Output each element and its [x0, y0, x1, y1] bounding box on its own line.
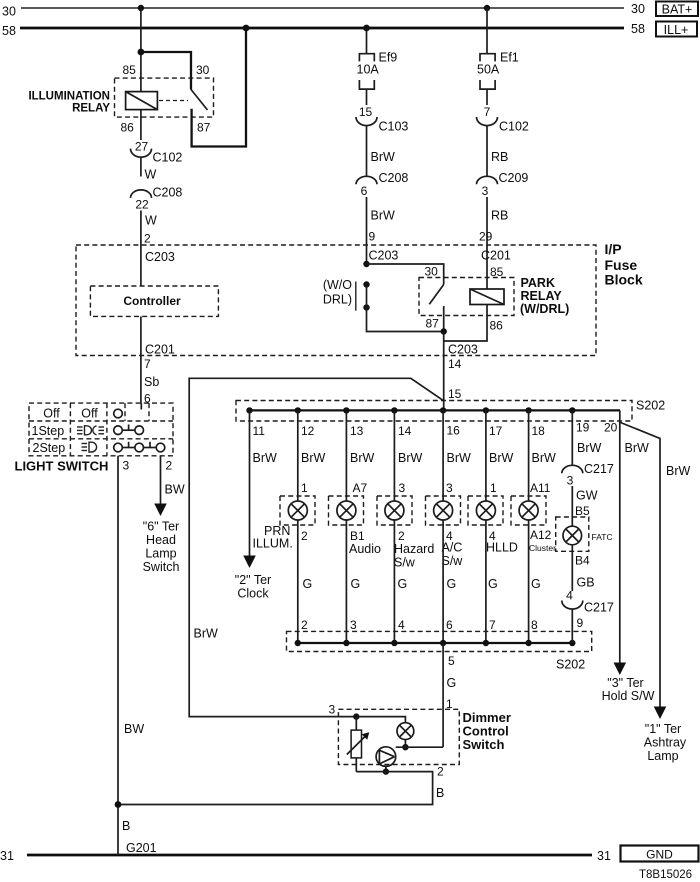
- I/P fuse block dashed box: [76, 245, 596, 356]
- svg-text:DRL): DRL): [323, 293, 352, 307]
- svg-text:BrW: BrW: [194, 627, 219, 641]
- lamp column 17: HLLD: [468, 410, 518, 643]
- svg-text:Lamp: Lamp: [145, 547, 176, 561]
- svg-text:BrW: BrW: [447, 451, 472, 465]
- transistor dimmer driver: [376, 747, 396, 772]
- lamp FATC: [556, 517, 613, 551]
- light switch pin labels 3 and 2: [123, 459, 173, 473]
- svg-text:85: 85: [490, 265, 504, 279]
- connector C103 pin 15: [356, 105, 408, 134]
- bus line 31 (ground): [0, 849, 611, 863]
- relay coil: [126, 92, 158, 110]
- svg-text:B: B: [122, 819, 130, 833]
- svg-text:87: 87: [426, 317, 440, 331]
- svg-text:Audio: Audio: [349, 542, 381, 556]
- wire BrW to fuse block pin 9 C203: [367, 197, 399, 264]
- wire RB to C209: [487, 126, 508, 177]
- svg-text:BW: BW: [124, 722, 144, 736]
- svg-text:A/C: A/C: [442, 541, 463, 555]
- svg-text:C102: C102: [153, 151, 183, 165]
- svg-text:22: 22: [135, 198, 149, 212]
- connector C209 pin 3: [477, 171, 529, 198]
- svg-text:G: G: [488, 577, 498, 591]
- svg-text:Hazard: Hazard: [394, 542, 434, 556]
- svg-text:4: 4: [398, 618, 405, 632]
- lamp column 12: PRN ILLUM.: [253, 410, 326, 643]
- light switch contacts row 2Step: [114, 442, 165, 452]
- wire pin3 node to lamp: [356, 717, 405, 723]
- svg-text:27: 27: [135, 140, 149, 154]
- wire node to park relay contact 30: [367, 264, 444, 285]
- wire fuse to connector C103: [366, 89, 368, 105]
- svg-text:Clock: Clock: [237, 587, 269, 601]
- svg-text:BrW: BrW: [666, 464, 691, 478]
- wire coil 86 to node: [444, 305, 487, 342]
- light switch contacts row Off: [114, 409, 123, 418]
- S202 upper bus nodes: [246, 407, 575, 413]
- bus line 30 (BAT+): [2, 2, 645, 19]
- wire W/O DRL lower leg: [367, 308, 444, 332]
- terminal box BAT+: [656, 2, 698, 17]
- label (W/O DRL) with bracket: [323, 278, 356, 311]
- wire dimmer pin 2 B to ground junction: [118, 765, 444, 805]
- svg-text:ILLUM.: ILLUM.: [253, 537, 293, 551]
- svg-text:Ef9: Ef9: [379, 51, 398, 65]
- svg-text:BrW: BrW: [350, 451, 375, 465]
- label Dimmer Control Switch: [463, 710, 511, 752]
- svg-text:58: 58: [631, 22, 645, 36]
- svg-text:16: 16: [447, 424, 461, 438]
- svg-text:3: 3: [329, 703, 336, 717]
- svg-text:RB: RB: [491, 209, 508, 223]
- svg-text:"2" Ter: "2" Ter: [235, 573, 271, 587]
- svg-text:S202: S202: [556, 658, 585, 672]
- svg-text:C203: C203: [448, 343, 478, 357]
- W/O DRL jumper contacts: [363, 281, 369, 310]
- terminal box ILL+: [656, 22, 697, 38]
- terminal box GND: [621, 846, 699, 862]
- svg-text:29: 29: [479, 230, 493, 244]
- svg-text:BrW: BrW: [371, 150, 396, 164]
- wire bus 30 to fuse Ef1: [486, 8, 488, 54]
- svg-text:(W/O: (W/O: [323, 278, 352, 292]
- svg-text:BrW: BrW: [577, 441, 602, 455]
- svg-text:87: 87: [197, 121, 211, 135]
- arrow to "2" Ter clock: [235, 556, 271, 601]
- connector C102 pin 7: [477, 105, 529, 134]
- icon head lamp (2Step): [82, 442, 97, 452]
- wire S202 pin 5 G down to dimmer pin 1: [443, 643, 456, 747]
- svg-text:Ashtray: Ashtray: [644, 736, 687, 750]
- label I/P Fuse Block: [605, 241, 643, 288]
- svg-text:2: 2: [166, 459, 173, 473]
- svg-text:PARK: PARK: [521, 276, 556, 290]
- svg-text:BrW: BrW: [532, 451, 557, 465]
- svg-text:ILLUMINATION: ILLUMINATION: [28, 91, 110, 103]
- svg-text:C102: C102: [499, 120, 529, 134]
- svg-text:C203: C203: [145, 250, 175, 264]
- svg-text:GW: GW: [576, 489, 598, 503]
- illumination relay dashed box: [115, 78, 214, 117]
- svg-text:BrW: BrW: [253, 451, 278, 465]
- svg-text:10A: 10A: [357, 63, 380, 77]
- svg-text:30: 30: [425, 265, 439, 279]
- light switch contacts row 1Step: [114, 425, 144, 435]
- svg-text:3: 3: [482, 184, 489, 198]
- svg-text:C208: C208: [379, 171, 409, 185]
- arrow to "3" Ter hold S/W: [602, 663, 655, 704]
- svg-text:G201: G201: [126, 841, 157, 855]
- svg-text:(W/DRL): (W/DRL): [520, 302, 569, 316]
- svg-text:2Step: 2Step: [33, 441, 66, 455]
- connector C208 pin 22: [131, 186, 183, 212]
- svg-text:A7: A7: [353, 481, 368, 495]
- svg-text:C203: C203: [369, 249, 399, 263]
- svg-text:A12: A12: [530, 528, 552, 542]
- relay mechanical link (dashed): [159, 100, 188, 102]
- label PARK RELAY (W/DRL): [520, 276, 569, 316]
- wire BrW branch to ashtray lamp: [621, 423, 691, 707]
- svg-text:8: 8: [531, 618, 538, 632]
- svg-text:2: 2: [398, 529, 405, 543]
- svg-text:S/w: S/w: [442, 554, 464, 568]
- svg-text:C217: C217: [584, 462, 614, 476]
- svg-text:3: 3: [399, 481, 406, 495]
- arrow to "1" Ter ashtray lamp: [644, 707, 687, 764]
- svg-text:85: 85: [123, 63, 137, 77]
- svg-text:W: W: [145, 168, 157, 182]
- park relay coil 85/86: [470, 265, 504, 333]
- park relay contact blade: [429, 285, 443, 305]
- lamp column 18: A12 Cluster: [511, 410, 556, 643]
- svg-text:BrW: BrW: [301, 451, 326, 465]
- svg-text:G: G: [447, 577, 457, 591]
- wire W to C208: [141, 157, 157, 182]
- svg-text:Cluster: Cluster: [529, 543, 556, 553]
- svg-text:G: G: [531, 577, 541, 591]
- node on bus 30 feeding fuse Ef1: [484, 5, 490, 11]
- relay contact blade: [191, 90, 208, 111]
- svg-text:A11: A11: [530, 481, 551, 495]
- svg-text:Switch: Switch: [463, 737, 505, 752]
- svg-text:14: 14: [398, 424, 412, 438]
- svg-text:FATC: FATC: [592, 532, 613, 542]
- svg-text:C208: C208: [153, 186, 183, 200]
- svg-text:B1: B1: [350, 529, 365, 543]
- svg-text:C201: C201: [481, 249, 511, 263]
- svg-text:5: 5: [448, 654, 455, 668]
- S202 pin numbers top row: [253, 421, 618, 439]
- svg-text:B: B: [436, 786, 444, 800]
- svg-text:BW: BW: [165, 483, 185, 497]
- node on bus 58: [243, 25, 250, 32]
- svg-text:W: W: [145, 214, 157, 228]
- controller dashed box: [90, 286, 218, 316]
- wire bus30 down to relay coil pin 85: [140, 8, 142, 92]
- svg-text:18: 18: [532, 424, 546, 438]
- bus line 58 (ILL+): [2, 22, 645, 38]
- park relay dashed box: [419, 278, 514, 316]
- node transistor emitter: [383, 768, 389, 774]
- wire bus 58 to fuse Ef9: [366, 28, 368, 54]
- svg-text:C209: C209: [499, 171, 529, 185]
- wire to C203 pin 14 down to S202 pin 15: [444, 332, 478, 411]
- svg-text:C217: C217: [584, 601, 614, 615]
- connector C217 pin 4: [562, 589, 614, 615]
- svg-text:30: 30: [196, 63, 210, 77]
- svg-text:BAT+: BAT+: [662, 3, 693, 17]
- svg-text:RELAY: RELAY: [72, 103, 110, 115]
- svg-text:G: G: [398, 577, 408, 591]
- svg-text:ILL+: ILL+: [664, 23, 689, 37]
- svg-text:G: G: [447, 676, 457, 690]
- lamp column 16: A/C S/w: [426, 410, 472, 643]
- svg-text:6: 6: [361, 184, 368, 198]
- svg-text:Block: Block: [605, 272, 643, 288]
- svg-text:Hold S/W: Hold S/W: [602, 689, 655, 703]
- svg-text:I/P: I/P: [605, 241, 622, 257]
- svg-text:Ef1: Ef1: [500, 51, 519, 65]
- connector C102 pin 27: [131, 140, 183, 165]
- svg-text:3: 3: [123, 459, 130, 473]
- wire pin 11 BrW to clock: [250, 410, 278, 555]
- light switch dashed box: [29, 403, 173, 456]
- wire fuse to connector C102: [486, 89, 488, 105]
- svg-text:BrW: BrW: [398, 451, 423, 465]
- node branch to relay contact 30: [138, 49, 145, 56]
- connector C208 pin 6: [356, 171, 408, 198]
- wire node to pin 1: [396, 746, 443, 748]
- svg-text:"3" Ter: "3" Ter: [607, 676, 643, 690]
- svg-text:Switch: Switch: [143, 560, 180, 574]
- S202 upper bus wire: [250, 409, 621, 411]
- wire BrW to C208: [367, 126, 396, 177]
- svg-text:RB: RB: [491, 150, 508, 164]
- lamp column 14: Hazard S/w: [377, 410, 434, 643]
- svg-text:1Step: 1Step: [32, 424, 65, 438]
- S202 lower bus wire: [298, 642, 573, 644]
- node lamp/transistor/pin1: [402, 744, 408, 750]
- wire GW to FATC lamp pin B5: [572, 486, 597, 526]
- wire dimmer feed: up from dimmer pin 3 over to S202 pin 15: [189, 378, 444, 716]
- svg-text:C201: C201: [145, 343, 175, 357]
- node dimmer pin 3: [353, 713, 359, 719]
- svg-text:Head: Head: [146, 533, 176, 547]
- svg-text:31: 31: [597, 849, 611, 863]
- svg-text:S/w: S/w: [394, 556, 416, 570]
- svg-text:30: 30: [631, 2, 645, 16]
- svg-text:G: G: [303, 577, 313, 591]
- svg-text:BrW: BrW: [371, 209, 396, 223]
- svg-text:2: 2: [144, 232, 151, 246]
- svg-text:C103: C103: [379, 120, 409, 134]
- wire pin 2 BW to head lamp switch: [161, 456, 185, 504]
- svg-text:19: 19: [576, 421, 590, 435]
- connector C217 pin 3: [562, 462, 614, 488]
- svg-text:12: 12: [301, 424, 315, 438]
- svg-text:S202: S202: [636, 399, 665, 413]
- svg-text:30: 30: [2, 5, 16, 19]
- svg-text:B5: B5: [575, 504, 590, 518]
- svg-text:Controller: Controller: [123, 294, 181, 308]
- svg-text:Sb: Sb: [144, 375, 159, 389]
- park relay contact lower lead pin 87: [426, 306, 444, 332]
- label ILLUMINATION RELAY: [28, 91, 110, 115]
- node on bus 58 feeding fuse Ef9: [363, 25, 370, 32]
- wire pin 19 BrW to connector C217 pin 3: [572, 410, 601, 465]
- wire lamp to node: [404, 740, 406, 748]
- svg-text:17: 17: [489, 424, 503, 438]
- svg-text:GB: GB: [577, 576, 595, 590]
- svg-text:HLLD: HLLD: [486, 541, 518, 555]
- svg-text:15: 15: [359, 105, 373, 119]
- svg-text:13: 13: [350, 424, 364, 438]
- wire pin 20 BrW to hold switch: [620, 410, 649, 662]
- icon park lamps (1Step): [77, 426, 104, 435]
- svg-text:2: 2: [301, 529, 308, 543]
- svg-text:T8B15026: T8B15026: [639, 869, 692, 881]
- svg-text:20: 20: [604, 421, 618, 435]
- wire W to fuse block pin 2 C203: [141, 211, 175, 287]
- wire B4 GB to connector C217 pin 4: [572, 545, 594, 591]
- S202 splice upper dashed box: [236, 399, 665, 422]
- fuse Ef9 10A: [357, 51, 398, 90]
- svg-text:6: 6: [446, 618, 453, 632]
- svg-text:BrW: BrW: [625, 441, 650, 455]
- svg-text:9: 9: [577, 616, 584, 630]
- svg-text:86: 86: [121, 121, 135, 135]
- S202 lower bus nodes: [295, 640, 576, 646]
- node W/O DRL top: [363, 261, 369, 267]
- wire relay pin 86 down: [140, 110, 142, 140]
- node ground junction on BW wire: [115, 801, 122, 808]
- wire pin 3 BW down to ground bus: [118, 456, 157, 855]
- wire to S202 lower pin 9: [572, 609, 583, 644]
- svg-text:Off: Off: [43, 407, 60, 421]
- arrow to "6" Ter head lamp switch: [143, 504, 180, 575]
- svg-text:RELAY: RELAY: [521, 289, 563, 303]
- svg-text:7: 7: [484, 105, 491, 119]
- svg-text:1: 1: [301, 481, 308, 495]
- svg-text:15: 15: [448, 387, 462, 401]
- wire branch to relay contact pin 30: [141, 52, 191, 90]
- wire relay pin 87 to bus 58: [192, 28, 246, 147]
- svg-text:"1" Ter: "1" Ter: [645, 722, 681, 736]
- S202 splice lower dashed box: [287, 631, 592, 671]
- svg-text:3: 3: [567, 474, 574, 488]
- svg-text:Off: Off: [81, 407, 98, 421]
- svg-text:G: G: [351, 577, 361, 591]
- light switch row labels: [32, 407, 99, 456]
- svg-text:86: 86: [490, 319, 504, 333]
- dimmer control switch dashed box: [338, 709, 459, 764]
- svg-text:2: 2: [437, 765, 444, 779]
- svg-text:3: 3: [446, 481, 453, 495]
- svg-text:"6" Ter: "6" Ter: [143, 520, 179, 534]
- svg-text:7: 7: [489, 618, 496, 632]
- svg-text:11: 11: [253, 424, 266, 438]
- svg-text:Lamp: Lamp: [647, 749, 678, 763]
- svg-text:9: 9: [369, 230, 376, 244]
- wire controller to C201 pin 7 Sb to light switch pin 6: [141, 316, 175, 405]
- svg-text:1: 1: [490, 481, 497, 495]
- svg-text:GND: GND: [646, 848, 673, 862]
- svg-text:31: 31: [0, 849, 14, 863]
- svg-text:50A: 50A: [477, 63, 500, 77]
- svg-text:BrW: BrW: [489, 451, 514, 465]
- svg-text:7: 7: [144, 357, 151, 371]
- lamp dimmer illumination: [397, 723, 414, 740]
- node pin87/86 junction: [441, 328, 447, 334]
- svg-text:14: 14: [448, 357, 462, 371]
- wire RB to fuse block pin 29 C201: [479, 197, 511, 289]
- rheostat (dimmer potentiometer): [347, 717, 370, 772]
- lamp column 13: B1 Audio: [329, 410, 382, 643]
- node on bus 30 feeding illumination relay: [138, 5, 144, 11]
- svg-text:58: 58: [2, 24, 16, 38]
- wire pin 6 stub: [140, 403, 142, 409]
- svg-text:LIGHT SWITCH: LIGHT SWITCH: [15, 459, 109, 474]
- svg-text:2: 2: [301, 618, 308, 632]
- svg-text:4: 4: [566, 589, 573, 603]
- svg-text:B4: B4: [575, 554, 590, 568]
- fuse Ef1 50A: [477, 51, 519, 90]
- svg-text:3: 3: [350, 618, 357, 632]
